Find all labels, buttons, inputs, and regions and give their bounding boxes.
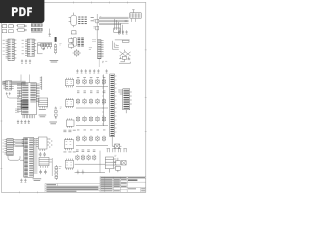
capacitor C14 [106,69,108,73]
capacitor C18 [28,120,30,124]
ic U16 [39,157,49,167]
relay K2 [69,13,77,34]
transistor Q2 [39,170,47,175]
resistor pack RN2 [31,23,42,33]
junction dots [49,139,52,148]
mcu U8 [15,83,40,119]
crystal Y1 [119,50,131,64]
wire arc [6,91,19,98]
varistor row RV16-RV20 [76,136,108,146]
label row [77,91,105,94]
wire L-drop [112,137,114,147]
capacitor C20 [24,179,26,183]
resistor network RN3 [42,43,61,54]
ic U15 [34,137,49,151]
ic U5 [38,43,53,54]
connector J4 [92,40,104,67]
ic U3 [3,39,17,61]
wire steps [112,41,118,49]
capacitor C6 [25,59,27,63]
diode D2 [69,37,74,49]
connector J5 [40,76,42,90]
wire net52 [49,158,61,176]
varistor row RV1-RV5 [76,77,108,86]
resistor network RN1 [16,24,26,31]
connector J3 [73,37,84,46]
connector J1 (header below badge, left) [2,24,14,33]
ic U7 [3,81,13,90]
title text [46,177,145,192]
wire power bus [2,75,29,85]
capacitor C19 [20,179,22,183]
label text4 [63,130,75,153]
relay K1 [38,98,47,110]
varistor row RV11-RV15 [76,116,108,130]
capacitor C3 [122,30,124,34]
PDF badge [0,0,44,23]
resistor R1 [93,14,101,40]
label text J4a [89,48,107,63]
transistor Q1 [39,152,46,157]
capacitor C7 [29,59,31,63]
wire bus [99,17,129,25]
capacitor C4 [126,30,128,34]
connector J7 [118,89,132,113]
ic U13 [2,139,15,156]
capacitor C1 [49,33,51,37]
connector J2 [125,10,142,22]
label text3 [33,178,42,181]
capacitor C16 [21,120,23,124]
ic U18 [64,138,74,150]
led D3 [73,49,81,57]
ground symbols [77,170,85,174]
ic U4 [22,39,37,57]
capacitor C15 [17,120,19,124]
dip switch SW1 [78,17,87,24]
page sheet [0,0,149,198]
wire vertical net [99,151,101,173]
ferrite bead FB1 [55,37,57,42]
wire bus2 [15,140,24,161]
connector J6 [102,74,117,137]
filter U2 [114,28,120,32]
suppressor Z1 [113,144,122,148]
capacitor bank C8-C13 [76,69,99,73]
ic U14 [22,137,38,177]
regulator U19 [114,155,126,172]
varistor row RV6-RV10 [76,98,108,108]
capacitor C5 [21,59,23,63]
wire drops [115,19,123,34]
title block [100,177,146,193]
varistor row RV21-RV24 [75,150,105,173]
label text2 [39,115,57,125]
resistor network RN4 [55,165,58,180]
regulator U11 [55,107,62,119]
test points TP1-TP4 [107,149,127,153]
ic U10 [65,98,73,108]
ic U9 [65,78,73,88]
label text [50,60,59,62]
ic U6 [115,40,130,42]
label text D1 [91,17,94,21]
revision strip [45,184,100,193]
capacitor C17 [24,120,26,124]
wire arc2 [8,156,20,160]
connector J8 [105,157,116,173]
ic U12 [66,118,74,127]
ic U17 [65,159,73,170]
capacitor C2 [118,30,120,34]
